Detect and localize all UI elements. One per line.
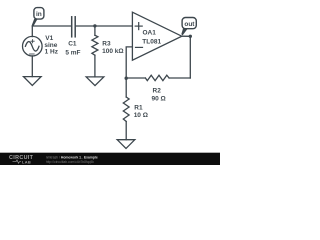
svg-text:C1: C1 bbox=[68, 41, 77, 48]
svg-text:http://circuitlab.com/c4b7b8fq: http://circuitlab.com/c4b7b8fqq5k bbox=[46, 160, 95, 164]
svg-text:in: in bbox=[36, 11, 42, 18]
svg-text:TL081: TL081 bbox=[142, 38, 161, 45]
svg-text:100 kΩ: 100 kΩ bbox=[102, 48, 123, 55]
svg-text:OA1: OA1 bbox=[143, 30, 157, 37]
svg-text:1 Hz: 1 Hz bbox=[45, 49, 59, 56]
svg-text:out: out bbox=[184, 21, 195, 28]
svg-text:LAB: LAB bbox=[22, 159, 31, 164]
svg-text:R3: R3 bbox=[102, 40, 111, 47]
svg-text:R1: R1 bbox=[134, 104, 143, 111]
svg-text:10 Ω: 10 Ω bbox=[134, 112, 148, 119]
svg-text:5 mF: 5 mF bbox=[65, 49, 80, 56]
svg-text:90 Ω: 90 Ω bbox=[151, 95, 165, 102]
svg-text:R2: R2 bbox=[153, 88, 162, 95]
